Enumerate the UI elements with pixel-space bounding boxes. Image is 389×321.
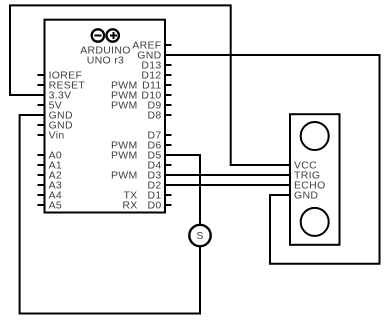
wire 3.3V to sensor VCC: [10, 5, 290, 165]
sensor pin labels: [294, 160, 326, 202]
wire GND(left) to speaker bottom: [20, 115, 200, 314]
pin function labels: [111, 80, 138, 212]
sensor U2 HC-SR04 body: [290, 114, 340, 245]
wire D5 to speaker top: [165, 155, 200, 225]
wire GND(right) to sensor GND: [165, 55, 380, 264]
sensor transducer bottom: [301, 208, 329, 236]
right pin stubs: [165, 45, 172, 205]
svg-text:D0: D0: [147, 200, 161, 212]
svg-text:PWM: PWM: [111, 150, 138, 162]
svg-text:S: S: [196, 230, 203, 242]
wire D3 to sensor TRIG: [165, 174, 290, 176]
sensor transducer top: [301, 122, 329, 150]
right pin labels: [132, 40, 161, 212]
svg-text:UNO r3: UNO r3: [87, 54, 124, 66]
left pin labels: [49, 70, 86, 212]
svg-text:GND: GND: [294, 190, 318, 202]
arduino logo: [92, 29, 119, 41]
svg-text:PWM: PWM: [111, 100, 138, 112]
svg-text:RX: RX: [122, 200, 137, 212]
speaker S1: [189, 225, 210, 246]
wire D2 to sensor ECHO: [165, 184, 290, 186]
left pin stubs: [38, 75, 45, 205]
svg-text:D8: D8: [147, 110, 161, 122]
svg-text:A5: A5: [49, 200, 62, 212]
svg-text:Vin: Vin: [49, 130, 65, 142]
svg-text:PWM: PWM: [111, 170, 138, 182]
op board U1 Arduino UNO r3 body: [45, 20, 166, 213]
